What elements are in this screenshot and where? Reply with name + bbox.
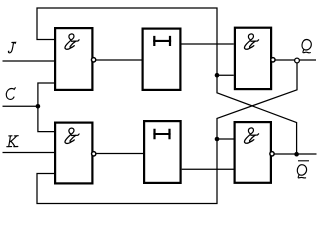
wire: K input (3, 152, 55, 154)
overline of Qbar (298, 160, 309, 162)
wire: Q output (272, 59, 316, 61)
inversion bubble G2 output (92, 152, 96, 156)
delay symbol D1 (154, 36, 170, 46)
label Qbar (297, 165, 306, 178)
NAND gate G4 (Qbar output gate) (235, 122, 271, 183)
inversion bubble G3 output (271, 58, 275, 62)
amp symbol of G2 (65, 128, 79, 143)
wire: C branch to G1 and G2 (38, 83, 54, 132)
inversion bubble G1 output (91, 58, 95, 62)
label K (7, 136, 18, 147)
wire: stub to G4 input 1 (217, 138, 234, 140)
wire: G1 output to D1 input (94, 59, 142, 61)
delay symbol D2 (155, 129, 170, 140)
wire: Qbar output (272, 153, 317, 155)
inversion bubble G4 output (270, 152, 274, 156)
delay element D1 (143, 29, 181, 90)
NAND gate G2 (K input gate) (55, 123, 92, 184)
amp symbol of G4 (244, 128, 258, 143)
wire: C input (3, 105, 38, 107)
wire: D1 output to G3 input 1 (182, 43, 234, 45)
wire: G2 output to D2 input (94, 153, 144, 155)
label J (8, 42, 15, 52)
wire: J input (3, 60, 55, 62)
label Q (302, 39, 311, 52)
wire: stub to G3 input 2 (217, 74, 234, 76)
junction G3 input 2 (215, 73, 220, 78)
label C (6, 88, 15, 100)
amp symbol of G1 (65, 34, 79, 49)
NAND gate G3 (Q output gate) (235, 28, 271, 89)
wire: Qbar feedback, top run to J-gate input 1 (37, 8, 297, 154)
junction G4 input 1 (215, 137, 220, 142)
delay element D2 (144, 121, 181, 183)
wire: D2 output to G4 input 2 (182, 168, 234, 170)
junction C (36, 104, 41, 109)
amp symbol of G3 (244, 34, 258, 49)
wire: Q feedback, cross-coupling and bottom run to K-gate input 3 (37, 61, 297, 204)
junction Qbar (294, 152, 299, 157)
node Q terminal circle (295, 58, 300, 63)
NAND gate G1 (J input gate) (55, 28, 92, 90)
